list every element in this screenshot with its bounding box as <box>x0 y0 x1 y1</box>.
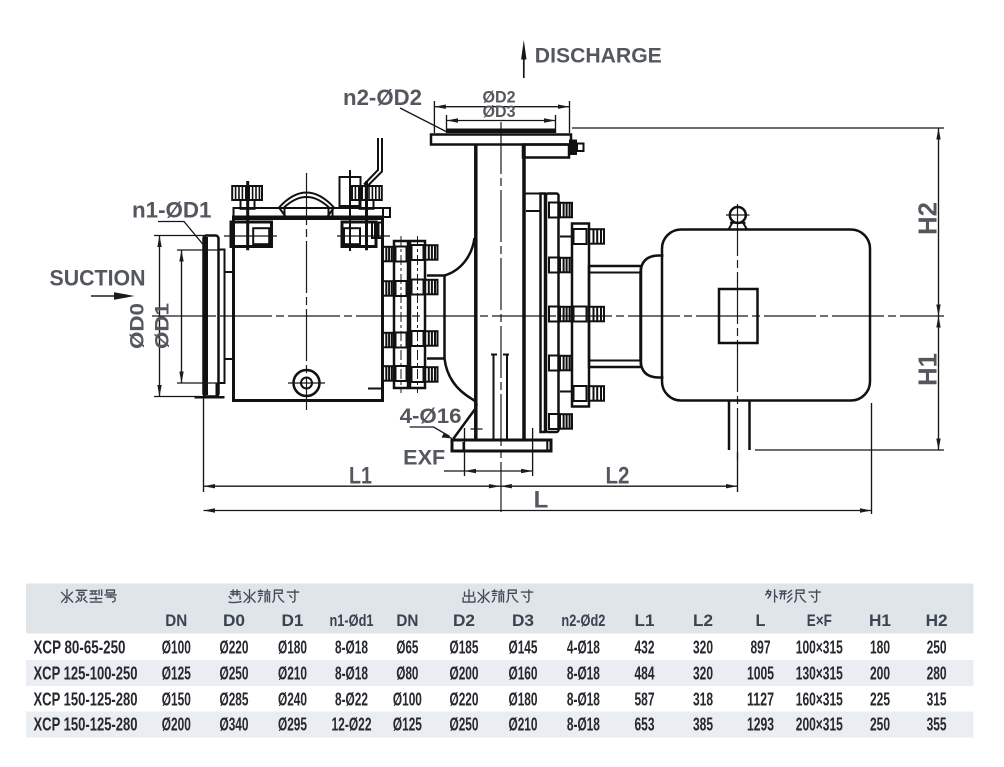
svg-text:DN: DN <box>396 611 418 630</box>
middle flange bolts right <box>425 245 438 382</box>
dimension L1 <box>204 398 501 492</box>
svg-text:225: 225 <box>870 689 890 710</box>
svg-text:XCP 125-100-250: XCP 125-100-250 <box>34 663 138 684</box>
svg-text:XCP 80-65-250: XCP 80-65-250 <box>34 637 126 658</box>
table stripe row 4 <box>26 712 974 738</box>
main horizontal centerline <box>152 315 944 317</box>
pump casing <box>234 217 383 401</box>
svg-text:Ø100: Ø100 <box>393 689 422 710</box>
dimension H2 <box>913 128 943 316</box>
dimension OD3 <box>447 102 556 133</box>
svg-text:4-Ø16: 4-Ø16 <box>400 404 462 428</box>
svg-text:897: 897 <box>751 637 771 658</box>
rear plate A <box>541 194 546 433</box>
svg-text:Ø240: Ø240 <box>278 689 307 710</box>
right lug <box>337 222 390 247</box>
svg-text:L1: L1 <box>349 462 372 489</box>
header 进水端尺寸 <box>229 590 241 603</box>
dimension L2 <box>500 452 737 492</box>
motor terminal box <box>719 289 758 343</box>
svg-text:8-Ø18: 8-Ø18 <box>567 689 600 710</box>
svg-text:200×315: 200×315 <box>796 714 843 735</box>
casing bottom-right step <box>368 388 383 390</box>
svg-text:ØD0: ØD0 <box>127 303 149 349</box>
svg-text:587: 587 <box>635 689 655 710</box>
svg-text:L1: L1 <box>635 611 655 630</box>
svg-text:280: 280 <box>927 663 947 684</box>
svg-text:L: L <box>534 487 549 514</box>
svg-text:100×315: 100×315 <box>796 637 843 658</box>
svg-text:Ø200: Ø200 <box>162 714 191 735</box>
svg-text:1005: 1005 <box>747 663 774 684</box>
svg-text:8-Ø18: 8-Ø18 <box>567 663 600 684</box>
casing right wall coupling bolt <box>372 223 382 239</box>
H2 top extension line <box>572 127 944 129</box>
svg-text:H2: H2 <box>926 611 948 630</box>
svg-text:Ø285: Ø285 <box>220 689 249 710</box>
n2-OD2 leader <box>400 108 446 132</box>
rear connector lines <box>560 237 572 392</box>
svg-text:H1: H1 <box>869 611 891 630</box>
svg-text:EXF: EXF <box>403 446 445 470</box>
motor foot <box>729 401 750 451</box>
svg-text:n2-ØD2: n2-ØD2 <box>343 85 422 110</box>
middle flange plate 1 <box>394 241 408 388</box>
middle flange nut blocks <box>396 245 424 382</box>
pump base <box>452 425 551 451</box>
svg-text:Ø125: Ø125 <box>393 714 422 735</box>
svg-text:Ø250: Ø250 <box>220 663 249 684</box>
dimension OD2 <box>434 87 569 133</box>
left gland studs and knurled nuts <box>232 181 262 250</box>
svg-text:H2: H2 <box>913 202 943 235</box>
volute lower curve <box>427 359 476 439</box>
volute upper curve <box>427 238 475 276</box>
header 水泵型号 <box>62 590 73 603</box>
vent lever <box>364 138 382 186</box>
dimension OD1 <box>152 250 223 383</box>
table header band <box>26 584 974 634</box>
discharge flange <box>431 129 571 158</box>
svg-text:1293: 1293 <box>747 714 774 735</box>
svg-text:130×315: 130×315 <box>796 663 843 684</box>
svg-text:Ø100: Ø100 <box>162 637 191 658</box>
svg-text:12-Ø22: 12-Ø22 <box>332 714 372 735</box>
svg-text:D3: D3 <box>512 611 534 630</box>
svg-text:Ø340: Ø340 <box>220 714 249 735</box>
label n1-OD1 <box>132 198 212 249</box>
svg-text:315: 315 <box>927 689 947 710</box>
bearing bracket <box>589 266 641 367</box>
svg-text:8-Ø22: 8-Ø22 <box>335 689 368 710</box>
svg-text:385: 385 <box>693 714 713 735</box>
svg-text:1127: 1127 <box>747 689 774 710</box>
left lug <box>224 222 277 247</box>
svg-text:L2: L2 <box>606 462 630 489</box>
svg-text:Ø295: Ø295 <box>278 714 307 735</box>
svg-text:Ø145: Ø145 <box>509 637 538 658</box>
svg-text:432: 432 <box>635 637 655 658</box>
suction flange <box>204 236 219 397</box>
label 4-O16 <box>400 404 462 439</box>
svg-text:XCP 150-125-280: XCP 150-125-280 <box>34 714 138 735</box>
svg-text:Ø65: Ø65 <box>396 637 418 658</box>
svg-text:320: 320 <box>693 637 713 658</box>
rear plate B bolts <box>560 203 572 429</box>
dimension EXF <box>444 428 533 476</box>
svg-text:8-Ø18: 8-Ø18 <box>335 663 368 684</box>
svg-text:ØD1: ØD1 <box>152 303 174 349</box>
middle flange bolts left <box>383 247 394 381</box>
svg-text:DN: DN <box>165 611 187 630</box>
svg-text:Ø180: Ø180 <box>509 689 538 710</box>
discharge pipe <box>476 145 524 441</box>
header 外形尺寸 <box>766 590 778 602</box>
svg-text:318: 318 <box>693 689 713 710</box>
svg-text:Ø210: Ø210 <box>509 714 538 735</box>
discharge pipe vertical centerline <box>500 122 502 512</box>
svg-text:DISCHARGE: DISCHARGE <box>535 44 662 68</box>
motor body <box>662 230 870 401</box>
rear plate C <box>572 224 589 407</box>
svg-text:484: 484 <box>635 663 656 684</box>
svg-text:Ø125: Ø125 <box>162 663 191 684</box>
svg-text:Ø185: Ø185 <box>450 637 479 658</box>
svg-text:Ø200: Ø200 <box>450 663 479 684</box>
svg-text:ØD3: ØD3 <box>483 102 516 121</box>
svg-text:D1: D1 <box>282 611 304 630</box>
suction nozzle neck <box>217 250 234 397</box>
svg-text:180: 180 <box>870 637 890 658</box>
svg-text:n1-ØD1: n1-ØD1 <box>132 198 212 223</box>
casing cover plate <box>234 208 391 217</box>
svg-text:653: 653 <box>635 714 655 735</box>
svg-text:Ø220: Ø220 <box>450 689 479 710</box>
svg-text:200: 200 <box>870 663 890 684</box>
svg-text:D2: D2 <box>453 611 475 630</box>
svg-text:SUCTION: SUCTION <box>50 266 146 291</box>
svg-text:XCP 150-125-280: XCP 150-125-280 <box>34 689 138 710</box>
svg-text:L: L <box>756 611 766 630</box>
rear pipe connector line <box>524 194 541 212</box>
svg-text:Ø80: Ø80 <box>396 663 418 684</box>
svg-text:Ø210: Ø210 <box>278 663 307 684</box>
svg-text:355: 355 <box>927 714 947 735</box>
suction arrow <box>91 292 135 300</box>
drain tube <box>491 355 509 441</box>
svg-text:Ø150: Ø150 <box>162 689 191 710</box>
discharge flange bolt <box>569 140 584 156</box>
DISCHARGE arrow <box>521 40 526 78</box>
svg-text:250: 250 <box>927 637 947 658</box>
svg-text:4-Ø18: 4-Ø18 <box>567 637 600 658</box>
dimension OD0 <box>127 236 205 397</box>
svg-text:8-Ø18: 8-Ø18 <box>335 637 368 658</box>
casing dome <box>279 193 334 217</box>
dimension H1 <box>913 316 943 450</box>
middle flange plate 2 <box>410 241 425 388</box>
right gland studs, nuts and housing <box>340 170 382 251</box>
drain plug on casing <box>288 370 325 396</box>
rear plate C bolts <box>589 229 604 401</box>
svg-text:320: 320 <box>693 663 713 684</box>
motor vertical centerline <box>737 204 739 460</box>
svg-text:Ø160: Ø160 <box>509 663 538 684</box>
svg-text:Ø250: Ø250 <box>450 714 479 735</box>
table stripe row 2 <box>26 660 974 686</box>
svg-text:160×315: 160×315 <box>796 689 843 710</box>
baseline extension right <box>755 449 944 451</box>
motor lifting eye <box>726 207 750 230</box>
header 出水端尺寸 <box>463 590 475 602</box>
svg-text:E×F: E×F <box>807 611 832 630</box>
svg-text:H1: H1 <box>913 353 943 386</box>
svg-text:250: 250 <box>870 714 890 735</box>
svg-text:Ø220: Ø220 <box>220 637 249 658</box>
motor bell <box>641 256 664 378</box>
dimension L <box>204 403 872 514</box>
rear plate nut blocks <box>549 203 587 430</box>
svg-text:L2: L2 <box>693 611 713 630</box>
svg-text:8-Ø18: 8-Ø18 <box>567 714 600 735</box>
casing vertical centerline <box>306 173 308 410</box>
svg-text:D0: D0 <box>223 611 245 630</box>
suction flange foot bar <box>195 396 225 399</box>
svg-text:n1-Ød1: n1-Ød1 <box>330 611 374 630</box>
svg-text:n2-Ød2: n2-Ød2 <box>561 611 605 630</box>
svg-text:Ø180: Ø180 <box>278 637 307 658</box>
rear plate B <box>546 194 559 433</box>
